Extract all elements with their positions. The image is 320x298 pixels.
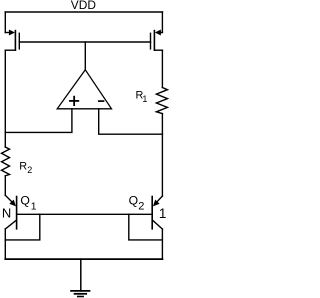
op-amp U1	[57, 70, 111, 109]
resistor R2	[2, 147, 10, 176]
wire right rail (R1 to inverting junction to Q2 emitter)	[161, 114, 163, 196]
svg-text:R: R	[19, 161, 27, 173]
wire inverting input (to right rail)	[99, 109, 163, 134]
wire Q1 base-collector tie	[5, 214, 40, 240]
wire left rail middle (M1 drain to R2)	[4, 50, 6, 147]
svg-text:N: N	[2, 206, 11, 221]
wire left rail to ground bus	[4, 229, 6, 259]
transistor Q1	[5, 195, 16, 229]
svg-text:VDD: VDD	[71, 0, 97, 12]
wire left rail upper (VDD to M1 source)	[4, 12, 6, 33]
wire op-amp output	[84, 42, 86, 70]
svg-text:1: 1	[31, 202, 37, 213]
wire VDD top rail	[5, 11, 162, 13]
transistor Q2	[152, 196, 162, 229]
svg-text:1: 1	[142, 94, 147, 104]
wire right rail upper (VDD to M2 source)	[161, 12, 163, 33]
svg-text:1: 1	[159, 206, 167, 221]
wire right rail to ground bus	[161, 229, 163, 259]
pmos M1	[5, 30, 19, 51]
ground	[71, 259, 89, 296]
pmos M2	[151, 30, 163, 51]
svg-text:2: 2	[138, 201, 144, 213]
svg-text:Q: Q	[129, 193, 138, 207]
wire ground bus	[5, 258, 162, 260]
wire Q2 base-collector tie	[129, 214, 163, 240]
svg-text:2: 2	[27, 165, 32, 175]
wire left rail lower (R2 to Q1 emitter)	[4, 176, 6, 195]
resistor R1	[156, 88, 167, 114]
wire gate bus	[19, 41, 150, 43]
wire right rail (M2 drain to R1)	[161, 50, 163, 87]
wire non-inverting input (to left rail)	[5, 109, 72, 133]
svg-text:Q: Q	[20, 193, 29, 207]
wire base bus (Q1 base to Q2 base)	[17, 213, 153, 215]
